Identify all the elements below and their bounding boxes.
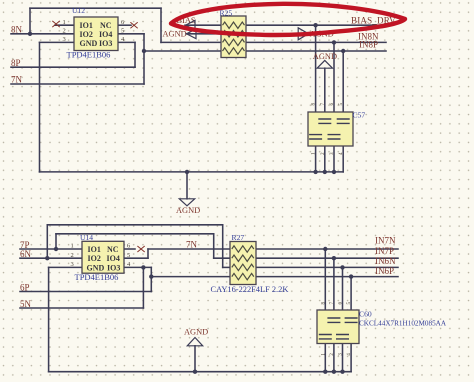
svg-text:C57: C57 [353, 111, 366, 120]
wire U12 pin5 stub [118, 33, 144, 35]
svg-text:IN6P: IN6P [375, 266, 394, 276]
wire 8N into R25 pin3 [161, 41, 221, 43]
junction pin4/R27 row4 [149, 274, 153, 278]
junction IN8N/C57 [332, 40, 336, 44]
junction rail/C57 pin3 [332, 170, 336, 174]
svg-text:1: 1 [71, 243, 74, 250]
wire 7P drop to R27 row2 [213, 234, 215, 258]
power port AGND (left of R25) [163, 29, 197, 39]
resistor pack R25 [220, 9, 247, 58]
svg-text:8P: 8P [11, 58, 21, 68]
wire U12 pin1 stub (no connect) [55, 24, 74, 26]
svg-text:7N: 7N [186, 240, 198, 250]
svg-text:6P: 6P [20, 283, 30, 293]
wire 7P into R27 pin2 [214, 257, 230, 259]
resistor element R25b [223, 31, 245, 37]
wire BIAS to R25 pin1 [185, 24, 221, 26]
junction rail/C60 pin2 [332, 370, 336, 374]
power port AGND (right of R25) [298, 28, 334, 40]
svg-text:R27: R27 [232, 233, 245, 242]
capacitor element C57c plates [328, 135, 341, 139]
capacitor element C57b plates [318, 119, 331, 123]
wire IN6P drop to C60 pin5 [350, 277, 352, 318]
svg-text:NC: NC [100, 21, 112, 30]
svg-text:CKCL44X7R1H102M085AA: CKCL44X7R1H102M085AA [359, 320, 447, 328]
svg-text:3: 3 [71, 261, 74, 268]
resistor element R25a [223, 22, 245, 28]
svg-text:4: 4 [346, 353, 352, 356]
power port AGND below top rail [176, 199, 200, 215]
junction IN6P/C60 [349, 274, 353, 278]
capacitor element C57a plates [309, 135, 322, 139]
svg-text:IO3: IO3 [107, 263, 120, 272]
svg-text:1: 1 [63, 19, 66, 26]
power port AGND above C57 [313, 52, 337, 68]
resistor pack R27 [211, 233, 289, 294]
svg-text:6: 6 [329, 103, 335, 106]
svg-text:5: 5 [127, 252, 130, 259]
svg-text:NC: NC [107, 245, 119, 254]
capacitor element C60b plates [327, 318, 340, 322]
svg-text:IO4: IO4 [107, 254, 120, 263]
wire 6N into R27 pin3 [223, 266, 230, 268]
no-ERC cross on U12 pin1 [52, 21, 60, 27]
svg-text:IN7N: IN7N [375, 236, 396, 246]
wire U12 pin4 stub [118, 41, 135, 43]
wire U12 pin3 GND stub [40, 41, 75, 43]
wire 6N drop to R27 row3 [222, 225, 224, 268]
wire C60 pin1 to AGND rail [324, 339, 326, 372]
wire 8N from left edge to U12 pin2 [11, 33, 74, 35]
wire 7P top run [56, 233, 214, 235]
junction rail/C60 pin1 [323, 370, 327, 374]
wire pin4 drop to 6P [150, 267, 152, 291]
wire U14 pin3 GND stub [49, 266, 82, 268]
wire 8P riser to U12 pin4 [134, 42, 136, 67]
wire U14 GND drop to AGND rail [48, 267, 50, 371]
wire IN8P drop to C57 pin5 [342, 51, 344, 119]
power port BIAS [177, 16, 196, 30]
junction 7N/pin5 [142, 49, 146, 53]
svg-text:IO2: IO2 [80, 30, 93, 39]
svg-text:5: 5 [338, 103, 344, 106]
ESD array U14 [71, 233, 145, 282]
svg-text:1: 1 [311, 152, 317, 155]
junction IN8P/C57 [341, 49, 345, 53]
wire 7N riser from pin5 [147, 249, 149, 258]
svg-text:6: 6 [338, 302, 344, 305]
wire C57 pin1 to AGND rail [315, 140, 317, 172]
wire C57 pin3 to AGND rail [333, 140, 335, 172]
svg-text:IO3: IO3 [99, 39, 112, 48]
wire AGND drop to C57 pin7 [324, 68, 326, 119]
svg-text:GND: GND [87, 263, 105, 272]
wire IN6N from R27 pin6 [256, 266, 399, 268]
capacitor pack C60 [317, 302, 447, 356]
wire C57 pin2 to AGND rail [324, 124, 326, 171]
wire C60 pin2 to AGND rail [333, 322, 335, 371]
resistor element R27c [232, 264, 254, 270]
svg-text:2: 2 [329, 353, 335, 356]
junction IN7N/C60 [323, 247, 327, 251]
svg-text:5: 5 [346, 302, 352, 305]
wire IN7N from R27 pin8 [256, 248, 399, 250]
svg-text:IO1: IO1 [88, 245, 101, 254]
capacitor element C60c plates [336, 335, 349, 339]
svg-text:5N: 5N [20, 299, 32, 309]
svg-text:8: 8 [320, 302, 326, 305]
junction IN7P/C60 [332, 256, 336, 260]
svg-text:3: 3 [329, 152, 335, 155]
svg-text:3: 3 [63, 36, 66, 43]
svg-text:IO1: IO1 [80, 21, 93, 30]
wire IN8P from R25 pin5 [246, 50, 386, 52]
power port AGND above bottom rail [184, 327, 208, 345]
svg-text:7: 7 [320, 103, 326, 106]
wire AGND stem above rail [194, 346, 196, 372]
wire R27 row4 from pin4 drop [151, 276, 230, 278]
junction rail/AGND stem (bottom) [193, 370, 197, 374]
wire U14 pin4 stub [124, 266, 151, 268]
wire 7N to R25 pin4 [144, 50, 221, 52]
wire BIAS_DRV from R25 pin8 [246, 24, 392, 26]
svg-text:IN8P: IN8P [359, 40, 378, 50]
wire IN6P from R27 pin5 [256, 276, 399, 278]
capacitor element C57d plates [337, 119, 350, 123]
wire AGND port to R25 pin2 [186, 33, 221, 35]
svg-text:2: 2 [63, 28, 66, 35]
junction IN6N/C60 [340, 265, 344, 269]
wire AGND rail (bottom section) [49, 371, 352, 373]
wire C57 pin4 to AGND rail [342, 124, 344, 171]
svg-text:IN7P: IN7P [375, 246, 394, 256]
capacitor element C60d plates [345, 318, 358, 322]
wire 8N drop to R25 row3 [160, 8, 162, 42]
svg-text:C60: C60 [359, 310, 372, 319]
no-ERC cross on U14 pin6 [137, 246, 144, 252]
wire AGND stem below rail [186, 172, 188, 199]
wire 5N from left edge [20, 307, 143, 309]
svg-text:IO2: IO2 [88, 254, 101, 263]
svg-text:GND: GND [80, 39, 98, 48]
junction rail/AGND stem [185, 170, 189, 174]
wire 6N from left edge to U14 pin2 [20, 257, 82, 259]
junction 7P [54, 247, 58, 251]
no-ERC cross on U12 pin6 [130, 22, 137, 28]
svg-text:TPD4E1B06: TPD4E1B06 [75, 272, 119, 282]
svg-text:2: 2 [71, 252, 74, 259]
junction 8N [28, 32, 32, 36]
wire 6N top run [47, 224, 222, 226]
capacitor element C60a plates [319, 335, 332, 339]
wire 8N top run to the right [30, 7, 161, 9]
resistor element R27d [232, 273, 254, 279]
wire 6P from left edge [20, 291, 151, 293]
svg-text:4: 4 [338, 152, 344, 155]
wire IN8N drop to C57 pin6 [333, 42, 335, 134]
svg-text:AGND: AGND [163, 29, 187, 38]
junction rail/C60 pin3 [340, 370, 344, 374]
junction dots bottom section [45, 247, 353, 374]
junction rail/C57 pin1 [313, 170, 317, 174]
svg-text:8: 8 [311, 103, 317, 106]
wire AGND rail (top section) [40, 171, 344, 173]
wire IN6N drop to C60 pin6 [342, 267, 344, 334]
svg-text:AGND: AGND [184, 327, 208, 336]
junction dots top section [28, 23, 346, 174]
resistor element R25d [223, 48, 245, 54]
ESD array U12 [52, 6, 137, 60]
junction BIAS_DRV/C57 [313, 23, 317, 27]
wire 7N into R27 pin1 [148, 248, 230, 250]
wire IN7P drop to C60 pin7 [333, 258, 335, 318]
wire U12 pin6 stub (no connect) [118, 24, 131, 26]
wire 8P from left edge [11, 66, 135, 68]
wire BIAS_DRV drop to C57 pin8 [315, 25, 317, 134]
svg-text:2: 2 [320, 152, 326, 155]
svg-text:TPD4E1B06: TPD4E1B06 [67, 50, 111, 60]
svg-text:IN6N: IN6N [375, 256, 396, 266]
wire 7N from left edge [11, 83, 144, 85]
svg-text:AGND: AGND [176, 206, 200, 215]
wire IN7N drop to C60 pin8 [324, 249, 326, 335]
svg-text:5: 5 [121, 28, 124, 35]
svg-text:IO4: IO4 [99, 30, 112, 39]
wire 7P from left edge to U14 pin1 [20, 248, 82, 250]
svg-text:U14: U14 [80, 233, 93, 242]
svg-text:7N: 7N [11, 75, 23, 85]
wire U12 GND drop to AGND rail [39, 42, 41, 172]
wire C60 pin3 to AGND rail [342, 339, 344, 372]
wire IN8N from R25 pin6 [246, 41, 386, 43]
resistor element R27b [232, 255, 254, 261]
wire U14 pin6 stub (no connect) [124, 248, 135, 250]
wire 7N riser to U12 pin5 [143, 34, 145, 84]
wire IN7P from R27 pin7 [256, 257, 399, 259]
wire 6N riser [46, 225, 48, 258]
svg-text:1: 1 [320, 353, 326, 356]
wire U14 pin5 stub [124, 257, 148, 259]
svg-text:7: 7 [329, 302, 335, 305]
svg-text:CAY16-222F4LF 2.2K: CAY16-222F4LF 2.2K [211, 285, 289, 294]
wire C60 pin4 to AGND rail [350, 322, 352, 371]
resistor element R27a [232, 246, 254, 252]
svg-text:6N: 6N [20, 249, 32, 259]
wire 8N riser up from junction [29, 8, 31, 34]
svg-text:U12: U12 [72, 6, 85, 15]
resistor element R25c [223, 39, 245, 45]
svg-text:3: 3 [338, 353, 344, 356]
junction 5N/pin4 stub [141, 265, 145, 269]
wire 5N riser to pin4 stub [142, 267, 144, 308]
capacitor pack C57 [308, 103, 365, 156]
junction rail/C57 pin2 [323, 170, 327, 174]
svg-text:8N: 8N [11, 24, 23, 34]
junction 6N [45, 256, 49, 260]
red annotation ellipse [171, 4, 405, 35]
wire AGND from R25 pin7 to right port [246, 33, 298, 35]
wire 7P riser [55, 234, 57, 249]
